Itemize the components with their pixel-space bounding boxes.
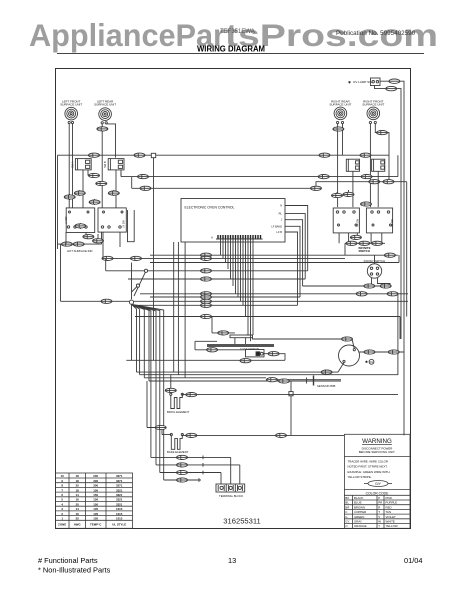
svg-text:GRAY: GRAY (354, 520, 362, 524)
wire lamp to right (380, 81, 404, 89)
svg-text:NOTED FIRST, STRIPE NEXT.: NOTED FIRST, STRIPE NEXT. (348, 465, 388, 469)
electronic oven control box (181, 199, 285, 243)
svg-text:3321: 3321 (116, 498, 123, 502)
limit L1 drop wires (70, 170, 94, 208)
bus y155 (58, 154, 390, 156)
svg-text:GREEN: GREEN (354, 515, 364, 519)
pigtail connectors (199, 456, 203, 482)
svg-text:COPPER: COPPER (354, 510, 366, 514)
limit switch box R2 (372, 159, 385, 171)
svg-text:1015: 1015 (116, 512, 123, 516)
svg-text:3321: 3321 (116, 493, 123, 497)
svg-text:105: 105 (93, 517, 98, 521)
color table grid (344, 500, 410, 524)
svg-text:ZONE: ZONE (58, 523, 66, 527)
svg-text:COLOR CODE: COLOR CODE (366, 491, 390, 495)
svg-text:C: C (345, 510, 347, 514)
bus B301.3 hub line (61, 300, 409, 302)
svg-text:ORANGE: ORANGE (354, 524, 367, 528)
door switch (364, 259, 386, 278)
sensor leads (266, 380, 299, 436)
bus B258.4 (102, 257, 346, 259)
connector oval lamp1 (389, 79, 400, 83)
svg-text:1015: 1015 (116, 507, 123, 511)
main border frame (56, 69, 411, 529)
svg-text:BL: BL (345, 501, 349, 505)
svg-text:N: N (280, 204, 282, 208)
svg-text:LF BAKE: LF BAKE (271, 224, 282, 228)
svg-text:✱: ✱ (365, 360, 368, 364)
svg-text:16: 16 (76, 498, 80, 502)
svg-text:AWG: AWG (74, 523, 82, 527)
wire coil LF right drop (72, 124, 74, 208)
svg-text:BEFORE SERVICING UNIT.: BEFORE SERVICING UNIT. (359, 450, 396, 454)
svg-text:300: 300 (93, 479, 98, 483)
svg-text:20: 20 (76, 502, 80, 506)
svg-text:YELLOW STRIPE.: YELLOW STRIPE. (348, 475, 372, 479)
door switch wires (372, 255, 391, 286)
svg-text:WHITE: WHITE (386, 520, 395, 524)
svg-text:BR: BR (345, 505, 349, 509)
svg-text:150: 150 (93, 502, 98, 506)
svg-text:20: 20 (76, 484, 80, 488)
svg-text:150: 150 (93, 488, 98, 492)
svg-text:3271: 3271 (116, 479, 123, 483)
svg-text:105: 105 (93, 512, 98, 516)
wire coil RR left drop (337, 124, 339, 208)
svg-text:1015: 1015 (116, 517, 123, 521)
svg-text:Publication No. 5995402590: Publication No. 5995402590 (336, 30, 416, 37)
svg-text:PR: PR (378, 501, 382, 505)
svg-text:PINK: PINK (386, 496, 393, 500)
svg-text:SW B: SW B (103, 161, 107, 168)
bus y188.3 (132, 177, 407, 317)
svg-text:SENSOR PRB: SENSOR PRB (317, 384, 335, 388)
svg-text:BLACK: BLACK (354, 496, 364, 500)
oven temp sensor probe (299, 376, 341, 389)
EOC right pin wires (285, 206, 308, 306)
svg-text:WARNING: WARNING (362, 438, 392, 445)
junction square B (289, 392, 293, 396)
svg-text:SURFACE UNIT: SURFACE UNIT (362, 103, 384, 107)
svg-text:OL: OL (370, 360, 374, 364)
hub junction (129, 300, 133, 304)
bus y176.6 (121, 155, 398, 176)
svg-text:VIOLET: VIOLET (386, 515, 397, 519)
EOC right pin labels (271, 204, 282, 235)
limit L2 drop wires (95, 170, 121, 208)
svg-text:TEMP°C: TEMP°C (90, 523, 102, 527)
svg-text:13: 13 (228, 556, 236, 565)
limit switch box L1 (70, 159, 91, 170)
svg-text:RR SW: RR SW (357, 218, 360, 227)
svg-text:W: W (378, 520, 381, 524)
svg-text:3321: 3321 (116, 488, 123, 492)
left rail lower (60, 244, 62, 301)
svg-text:316255311: 316255311 (223, 517, 260, 526)
EOC comb tooth drops (221, 239, 254, 341)
svg-text:GY: GY (345, 520, 349, 524)
bake wires (147, 381, 344, 435)
svg-text:PURPLE: PURPLE (386, 501, 398, 505)
svg-text:LF B: LF B (277, 230, 283, 234)
junction circle a (144, 269, 147, 272)
broil wires (171, 375, 398, 395)
svg-text:3271: 3271 (116, 484, 123, 488)
oven lamp switch (348, 78, 380, 86)
svg-text:TEF351EWA: TEF351EWA (220, 29, 255, 35)
EOC left column drops (174, 242, 185, 378)
connector oval below coil RR (333, 127, 344, 131)
left rail (57, 155, 59, 249)
warning box (344, 434, 410, 528)
limit switch box L2 (103, 159, 124, 170)
hub risers (132, 263, 147, 300)
svg-text:10: 10 (61, 474, 65, 478)
infinite switch box RF (366, 208, 394, 233)
svg-text:TAN: TAN (386, 510, 392, 514)
svg-text:BAKE ELEMENT: BAKE ELEMENT (167, 450, 189, 454)
junction square A (151, 153, 155, 157)
svg-text:20: 20 (76, 517, 80, 521)
svg-text:18: 18 (76, 474, 80, 478)
left switch bottom drops (66, 232, 120, 258)
hub fan-out (132, 304, 164, 480)
svg-text:EXAMPLE: GREEN WIRE WITH: EXAMPLE: GREEN WIRE WITH (348, 470, 390, 474)
svg-text:18: 18 (76, 488, 80, 492)
svg-text:TERMINAL BLOCK: TERMINAL BLOCK (219, 494, 243, 498)
right switch bottom stubs (339, 233, 385, 255)
motor wires (253, 338, 405, 372)
bus B279 (128, 278, 305, 280)
svg-text:01/04: 01/04 (404, 556, 423, 565)
bus B286 (303, 285, 390, 287)
lock motor wires (126, 317, 285, 361)
connector oval lamp2 (386, 86, 397, 90)
svg-text:BK: BK (345, 496, 349, 500)
bus B293.8 (140, 293, 408, 295)
wire lamp lower (375, 86, 402, 97)
svg-text:SURFACE UNIT: SURFACE UNIT (94, 103, 116, 107)
svg-text:SURFACE UNIT: SURFACE UNIT (60, 103, 82, 107)
svg-text:HOT SURFACE IND.: HOT SURFACE IND. (67, 249, 93, 253)
nested stub right of box LR (128, 210, 135, 242)
svg-text:R: R (378, 505, 380, 509)
svg-text:RED: RED (386, 505, 392, 509)
connector oval below coil RF (377, 131, 388, 135)
limit R drops (337, 171, 378, 207)
svg-text:A: A (211, 236, 213, 240)
svg-text:TRACER WIRE: WIRE COLOR: TRACER WIRE: WIRE COLOR (348, 459, 388, 463)
svg-text:14: 14 (76, 493, 80, 497)
svg-text:SWITCH: SWITCH (359, 249, 370, 253)
hot surface ind (58, 232, 102, 253)
svg-text:105: 105 (93, 507, 98, 511)
bus B305.3 (135, 304, 298, 306)
svg-text:V: V (378, 515, 380, 519)
bake element (167, 434, 189, 455)
bus B269 (106, 259, 308, 271)
svg-text:Y: Y (378, 524, 380, 528)
svg-text:WIRING DIAGRAM: WIRING DIAGRAM (197, 45, 265, 54)
svg-text:RF SW: RF SW (391, 219, 394, 227)
limit switch box R1 (346, 159, 359, 171)
surface unit coil RF (362, 99, 384, 123)
svg-text:BLUE: BLUE (354, 501, 362, 505)
wire coil LR right drop (106, 124, 115, 158)
infinite switch box RR (333, 208, 359, 233)
bus B255 (150, 254, 398, 256)
svg-text:OV LAMP SW: OV LAMP SW (353, 80, 372, 84)
svg-text:150: 150 (93, 498, 98, 502)
svg-text:RL: RL (279, 212, 283, 216)
svg-text:LF SW: LF SW (65, 216, 68, 224)
svg-text:BROWN: BROWN (354, 505, 365, 509)
svg-text:300: 300 (93, 484, 98, 488)
svg-text:YELLOW: YELLOW (386, 524, 398, 528)
lock motor assembly (207, 335, 274, 357)
svg-text:14: 14 (76, 507, 80, 511)
svg-text:3271: 3271 (116, 474, 123, 478)
svg-text:* Non-Illustrated Parts: * Non-Illustrated Parts (38, 566, 111, 575)
infinite switch box LR (98, 208, 126, 232)
surface unit coil LF (60, 99, 82, 123)
junction circle b (136, 284, 139, 287)
wires and connectors (58, 89, 409, 484)
left switch bottom stubs (80, 223, 98, 243)
wire coil LF left drop (68, 124, 70, 208)
right rails (398, 89, 404, 435)
surface unit coil RR (329, 99, 351, 123)
bus B316.5 (135, 317, 400, 340)
surface unit coil LR (94, 99, 116, 124)
svg-text:LR SW: LR SW (123, 220, 126, 228)
svg-text:ELECTRONIC OVEN CONTROL: ELECTRONIC OVEN CONTROL (185, 206, 235, 210)
wire coil RF drops (370, 124, 389, 208)
svg-text:G/Y: G/Y (375, 482, 382, 486)
broil element (167, 393, 190, 414)
ovals on bus y155 (89, 153, 100, 157)
oven light motor circle (339, 345, 374, 366)
connector oval below coil LR (97, 127, 108, 131)
junction square drop (153, 158, 155, 361)
svg-text:BROIL ELEMENT: BROIL ELEMENT (167, 410, 190, 414)
svg-text:3321: 3321 (116, 502, 123, 506)
svg-text:T: T (378, 510, 380, 514)
wire coil LR left drop (101, 124, 103, 208)
EOC connector comb (211, 235, 263, 240)
svg-text:P: P (378, 496, 380, 500)
header rule (57, 53, 424, 55)
svg-text:UL STYLE: UL STYLE (112, 523, 126, 527)
bus B297 (150, 296, 300, 298)
svg-text:18: 18 (76, 479, 80, 483)
terminal block (216, 484, 245, 498)
svg-text:16: 16 (76, 512, 80, 516)
svg-text:SURFACE UNIT: SURFACE UNIT (329, 103, 351, 107)
infinite switch box LF (65, 208, 95, 233)
long buses lower (137, 372, 398, 381)
svg-text:# Functional Parts: # Functional Parts (38, 556, 98, 565)
wire gauge table (56, 473, 133, 528)
bus B262.5 (150, 255, 399, 263)
wire coil RR right drop (342, 124, 344, 156)
bottom buses to terminal block (151, 457, 240, 484)
svg-text:150: 150 (93, 493, 98, 497)
svg-text:200: 200 (93, 474, 98, 478)
